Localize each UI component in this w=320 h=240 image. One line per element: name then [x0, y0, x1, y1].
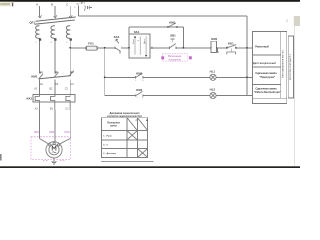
KM1 aux contact left tick — [167, 26, 169, 28]
control tap wire C phase to fuse — [70, 47, 86, 49]
lamp HL2 circle — [210, 92, 216, 98]
stub bus to table row1 — [247, 47, 253, 49]
junction dot bus HL1 — [246, 76, 248, 78]
svg-text:KK1: KK1 — [27, 97, 33, 101]
wire pole A to motor — [39, 110, 41, 139]
thermal relay KK1 heater pole A — [35, 96, 39, 110]
junction dot mode box line1 top — [134, 36, 136, 38]
breaker QF1 pole A contact chevron — [38, 15, 41, 18]
SA diagram X row1 col1 — [127, 131, 137, 140]
branch wire to lamp HL1 — [105, 76, 136, 78]
motor letter M — [52, 146, 56, 150]
SA diagram X row3 col2 — [137, 149, 147, 158]
KM1 aux contact right tick — [176, 26, 178, 28]
svg-text:KM1: KM1 — [136, 88, 142, 92]
svg-text:B: B — [51, 3, 53, 7]
junction dot bus lamp1 wire — [104, 76, 106, 78]
motor tilde — [52, 151, 56, 154]
KM1 lamp contact 2 blade — [136, 91, 143, 95]
junction dot mode box bottom — [145, 55, 147, 57]
annotation selection dashed rect — [162, 54, 187, 61]
toolbar cursor tick — [11, 3, 14, 7]
svg-text:N: N — [77, 3, 79, 6]
wire fuse to junction — [97, 47, 115, 49]
svg-text:1 - Ручн.: 1 - Ручн. — [103, 135, 112, 137]
terminal dot aux left — [167, 26, 168, 27]
switch SA1 right terminal tick — [121, 47, 123, 49]
mode box contact line 2 — [139, 37, 141, 55]
branch wire to lamp HL2 — [105, 95, 136, 97]
svg-text:Сдвоенная лампа: Сдвоенная лампа — [255, 72, 277, 75]
button SB1 bar — [171, 38, 175, 40]
connector socket arc — [88, 6, 91, 9]
thermal contact KK1 blade — [227, 45, 236, 48]
svg-text:6: 6 — [143, 80, 144, 82]
junction dot branch right — [183, 47, 185, 49]
ground bar 1 — [51, 160, 57, 162]
svg-text:SA1: SA1 — [134, 30, 140, 34]
legend table divider row1/2 — [253, 54, 281, 56]
wire coil to thermal contact — [217, 47, 227, 49]
switch SA1 left terminal tick — [114, 47, 116, 49]
selection handle left — [161, 56, 164, 59]
wire pole C to motor — [69, 110, 71, 139]
stub bus to table row3 — [247, 76, 253, 78]
legend table footer strip — [253, 98, 287, 103]
junction dot mode box left — [128, 47, 130, 49]
ground bar 2 — [52, 162, 56, 164]
svg-text:Сдвоенная лампа: Сдвоенная лампа — [255, 88, 277, 91]
button SB1 stem — [172, 39, 174, 42]
svg-text:A: A — [36, 3, 38, 7]
selection dashed box around motor — [31, 137, 71, 160]
lamp HL2 cross — [211, 93, 215, 97]
KM1 aux contact blade — [168, 23, 176, 27]
KM1 lamp contact 2 right tick — [142, 94, 144, 96]
N label wire down — [77, 6, 79, 16]
motor M1 terminal A — [49, 144, 51, 146]
SA diagram header divider — [102, 130, 148, 132]
svg-text:SB1: SB1 — [170, 33, 176, 37]
coil terminal squares pole C — [70, 38, 72, 40]
KM1 lamp contact 2 left tick — [135, 94, 137, 96]
breaker QF1 release coil pole C — [66, 26, 70, 39]
fuse FU1 left cap — [85, 46, 87, 50]
scrollbar right button — [294, 16, 300, 26]
control bus down from fuse junction — [104, 48, 106, 96]
thermal contact KK1 right tick — [235, 47, 237, 49]
phase C feeder wire — [69, 6, 71, 16]
window bottom black bar — [0, 166, 300, 168]
svg-text:KM1: KM1 — [211, 37, 217, 41]
wire contact1 to HL1 — [143, 76, 210, 78]
self-hold branch left drop — [128, 27, 130, 34]
wire HL2 to bus — [216, 95, 247, 97]
junction dot after fuse — [104, 47, 106, 49]
svg-text:6: 6 — [142, 97, 143, 99]
terminal dot KK right — [235, 47, 236, 48]
wire pole C to contactor — [69, 38, 71, 74]
wire pole A contactor to relay — [39, 80, 41, 97]
KM1 lamp contact 1 blade — [136, 73, 143, 77]
motor ground lead — [53, 158, 55, 161]
scrollbar mark — [286, 20, 289, 23]
wire pole B to contactor — [54, 38, 56, 74]
wire HL1 to bus — [216, 76, 247, 78]
thermal relay KK1 box — [33, 95, 75, 103]
motor lead A diagonal — [40, 139, 50, 145]
KM1 pole C tip tick — [70, 72, 72, 74]
thermal relay KK1 heater pole C — [66, 96, 70, 110]
svg-text:Диаграмма переключения: Диаграмма переключения — [110, 113, 141, 115]
SA diagram row1 divider — [102, 139, 148, 141]
KM1 lamp contact 1 right tick — [142, 76, 144, 78]
selection handle right — [189, 56, 192, 59]
breaker QF1 blade bar lower / linkage — [35, 20, 75, 24]
right vertical bus — [246, 16, 248, 96]
wire button to coil — [176, 47, 211, 49]
fuse FU1 right cap — [96, 46, 98, 50]
terminal dot coil left — [210, 47, 211, 48]
wire pole B to motor — [54, 110, 56, 142]
SA diagram header diagonal 2 — [137, 118, 147, 131]
SA diagram col divider 1 — [126, 118, 128, 158]
svg-text:SA1: SA1 — [114, 35, 120, 39]
KM1 pole B tip tick — [55, 72, 57, 74]
selection dash left of ground — [43, 160, 48, 162]
button SB1 right tick — [175, 47, 177, 49]
mode box contact line 1 — [134, 37, 136, 55]
svg-text:KM1: KM1 — [169, 20, 175, 24]
panel name side box — [288, 36, 293, 98]
legend table divider row2/3 — [253, 66, 281, 68]
motor M1 terminal C — [57, 144, 59, 146]
svg-text:Ремонтный: Ремонтный — [255, 45, 269, 48]
switch SA1 blade — [115, 48, 120, 52]
SA diagram header diagonal 1 — [127, 118, 137, 131]
svg-text:FU1: FU1 — [88, 42, 94, 46]
contactor KM1 pole C blade — [69, 71, 73, 76]
mode box contact line 3 — [145, 37, 147, 55]
breaker QF1 release coil pole A — [36, 26, 40, 39]
SA diagram under-line — [101, 160, 154, 162]
svg-text:Дистанционный: Дистанционный — [253, 62, 276, 65]
wire thermal contact to bus — [236, 47, 247, 49]
self-hold branch right drop — [182, 27, 184, 48]
contactor KM1 linkage — [39, 76, 72, 79]
svg-text:Щиток Вентилятора В-1: Щиток Вентилятора В-1 — [289, 53, 292, 80]
switch SA1 lower stub — [119, 51, 121, 54]
toolbar green label — [0, 3, 10, 5]
svg-text:"Работа Вентилятора": "Работа Вентилятора" — [254, 91, 281, 94]
motor lead C diagonal — [59, 139, 70, 145]
svg-text:ПМ3: ПМ3 — [64, 131, 70, 134]
svg-text:Ручн: Ручн — [133, 38, 135, 44]
SA diagram table outer box — [102, 118, 148, 158]
svg-text:Ключ управления вентил.: Ключ управления вентил. — [281, 49, 284, 78]
breaker SF1 tick bar — [86, 6, 88, 9]
motor M1 terminal B — [53, 142, 55, 144]
svg-text:2 - Дистанц.: 2 - Дистанц. — [103, 153, 116, 155]
thermal contact KK1 hook bar — [227, 52, 236, 54]
breaker QF1 release coil pole B — [51, 26, 55, 39]
coil terminal tick — [216, 48, 218, 52]
tick after mode box — [151, 47, 153, 49]
junction dot bus main — [246, 47, 248, 49]
svg-text:KM1: KM1 — [31, 75, 37, 79]
legend table divider row3/4 — [253, 83, 281, 85]
mode selector box SA1 — [129, 34, 150, 58]
wire mode box to button — [150, 47, 169, 49]
coil terminal squares pole A — [39, 38, 41, 40]
svg-text:KM1: KM1 — [136, 72, 142, 76]
toolbar beige strip — [0, 2, 14, 7]
svg-text:пускателя: пускателя — [169, 58, 182, 61]
KM1 lamp contact 1 left tick — [135, 76, 137, 78]
lamp HL1 circle — [210, 74, 216, 80]
KM1 pole A tip tick — [40, 72, 42, 74]
svg-text:контактов переключателя SA1: контактов переключателя SA1 — [107, 115, 143, 118]
window top black bar — [0, 0, 300, 2]
phase A feeder wire — [39, 6, 41, 16]
switch SA1 arrow — [116, 39, 119, 43]
contactor KM1 pole A blade — [39, 74, 43, 79]
SA diagram col divider 2 — [136, 118, 138, 158]
thermal contact KK1 hook stem — [230, 48, 232, 52]
svg-text:Дист: Дист — [144, 39, 146, 44]
contactor coil KM1 body — [211, 41, 217, 52]
junction dot C phase tap — [69, 47, 71, 49]
motor M1 outer circle — [46, 142, 62, 158]
svg-text:C: C — [66, 3, 68, 7]
thermal contact KK1 left tick — [226, 47, 228, 49]
N horizontal wire — [78, 15, 247, 17]
svg-text:HL1: HL1 — [210, 69, 216, 73]
svg-text:ручки: ручки — [110, 125, 117, 127]
bottom-left stray mark — [0, 154, 2, 161]
thermal relay KK1 heater pole B — [51, 96, 55, 110]
connector stub — [90, 7, 93, 9]
lamp HL1 cross — [211, 75, 215, 79]
wire SA1 to mode box — [122, 47, 129, 49]
motor M1 inner circle — [49, 145, 59, 155]
svg-text:5: 5 — [135, 80, 136, 82]
breaker SF1 blade — [84, 6, 85, 11]
svg-text:KK1: KK1 — [228, 42, 234, 46]
wire pole A to contactor — [39, 38, 41, 74]
breaker QF1 pole B contact chevron — [54, 15, 57, 18]
legend table col divider 2 — [280, 31, 282, 98]
svg-text:ПМ2: ПМ2 — [49, 131, 55, 134]
breaker QF1 blade bar upper — [36, 17, 76, 21]
svg-text:Положение: Положение — [107, 122, 120, 124]
button SB1 left tick — [168, 47, 170, 49]
SA diagram row2 divider — [102, 148, 148, 150]
window right border — [294, 26, 296, 166]
svg-text:"Перегрузка": "Перегрузка" — [260, 76, 276, 79]
self-hold branch wire — [129, 26, 183, 28]
phase B feeder wire — [54, 6, 56, 16]
wire pole B contactor to relay — [54, 80, 56, 97]
svg-text:QF1: QF1 — [29, 21, 35, 25]
breaker QF1 pole C contact chevron — [69, 15, 72, 18]
terminal dot coil right — [216, 47, 217, 48]
terminal dot KK left — [226, 47, 227, 48]
stub bus to table row4 — [247, 95, 253, 97]
wire contact2 to HL2 — [143, 95, 210, 97]
legend table outer box — [253, 31, 287, 98]
svg-text:5: 5 — [136, 97, 137, 99]
coil terminal squares pole B — [54, 38, 56, 40]
contactor KM1 pole B blade — [54, 72, 58, 77]
svg-text:HL2: HL2 — [210, 88, 216, 92]
fuse FU1 body — [86, 46, 98, 50]
wire pole C contactor to relay — [69, 80, 71, 97]
selection dash right of ground — [60, 160, 65, 162]
svg-text:ПМ1: ПМ1 — [34, 131, 40, 134]
svg-text:0 - 0: 0 - 0 — [103, 144, 108, 146]
terminal dot aux right — [176, 26, 177, 27]
ground bar 3 — [53, 163, 55, 165]
button SB1 blade — [170, 44, 176, 48]
